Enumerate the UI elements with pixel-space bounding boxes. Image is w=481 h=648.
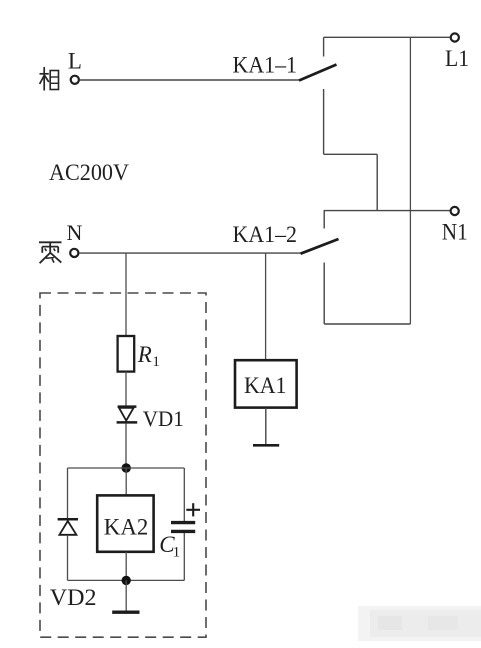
- label 零 (neutral): [39, 242, 62, 263]
- wire KA1 to ground: [265, 408, 267, 445]
- capacitor C1 plus sign: [186, 503, 200, 516]
- wire VD1 to node: [125, 424, 127, 468]
- wire R1 to VD1: [125, 372, 127, 406]
- wire branch to R1: [125, 253, 127, 336]
- wire left branch lower: [67, 536, 69, 581]
- svg-text:N1: N1: [442, 219, 468, 244]
- wire left branch upper: [67, 468, 69, 518]
- switch KA1-2 blade: [301, 239, 339, 254]
- wire KA2 bottom lead: [125, 552, 127, 581]
- node bottom junction dot: [122, 576, 131, 585]
- wire branch to KA1: [265, 253, 267, 360]
- svg-text:VD1: VD1: [143, 406, 184, 431]
- wire KA1-2 lower vertical: [323, 263, 325, 325]
- wire KA2 top lead: [125, 468, 127, 495]
- svg-text:KA1–1: KA1–1: [233, 52, 298, 77]
- svg-text:KA1–2: KA1–2: [233, 222, 298, 247]
- svg-text:1: 1: [173, 544, 181, 560]
- label 相 (phase): [40, 67, 59, 91]
- wire KA1-1 lower vertical: [323, 89, 325, 154]
- diode VD1: [117, 407, 138, 423]
- dashed enclosure box: [40, 293, 206, 637]
- svg-text:VD2: VD2: [50, 585, 97, 611]
- svg-text:KA1: KA1: [244, 373, 287, 398]
- wire jog vertical: [376, 154, 378, 210]
- svg-text:1: 1: [152, 354, 160, 370]
- terminal N1 circle: [451, 207, 459, 215]
- svg-text:N: N: [67, 220, 83, 245]
- switch KA1-1 blade: [299, 65, 337, 81]
- wire N row: [79, 252, 301, 254]
- node top junction dot: [122, 463, 131, 472]
- svg-text:AC200V: AC200V: [49, 160, 129, 185]
- diode VD2: [58, 519, 78, 535]
- wire top line to L1: [324, 36, 451, 38]
- svg-text:L1: L1: [445, 46, 469, 71]
- switch KA1-2 fixed contact upper: [323, 211, 325, 229]
- wire top inner horizontal: [68, 467, 185, 469]
- ground KA2: [112, 611, 139, 614]
- wire L row: [80, 79, 300, 81]
- wire right branch lower: [183, 533, 185, 580]
- wire to ground KA2: [125, 580, 127, 610]
- watermark blob bottom right: [358, 606, 481, 641]
- wire bottom inner horizontal: [68, 579, 185, 581]
- resistor R1: [118, 336, 135, 372]
- ground KA1: [253, 444, 279, 447]
- wire N1 line: [324, 210, 451, 212]
- terminal L1 circle: [451, 33, 459, 41]
- terminal N circle: [70, 249, 78, 257]
- terminal L circle: [71, 76, 79, 84]
- relay coil KA2 box: [97, 495, 153, 551]
- svg-text:R: R: [137, 342, 152, 367]
- relay coil KA1 box: [235, 360, 297, 407]
- svg-text:KA2: KA2: [104, 515, 149, 540]
- wire long vertical right: [409, 37, 411, 324]
- svg-text:L: L: [68, 48, 82, 73]
- wire jog horizontal: [324, 153, 378, 155]
- switch KA1-1 fixed contact upper: [323, 37, 325, 56]
- wire right branch upper: [183, 468, 185, 521]
- capacitor C1: [171, 523, 195, 532]
- wire bottom loop horizontal: [324, 323, 410, 325]
